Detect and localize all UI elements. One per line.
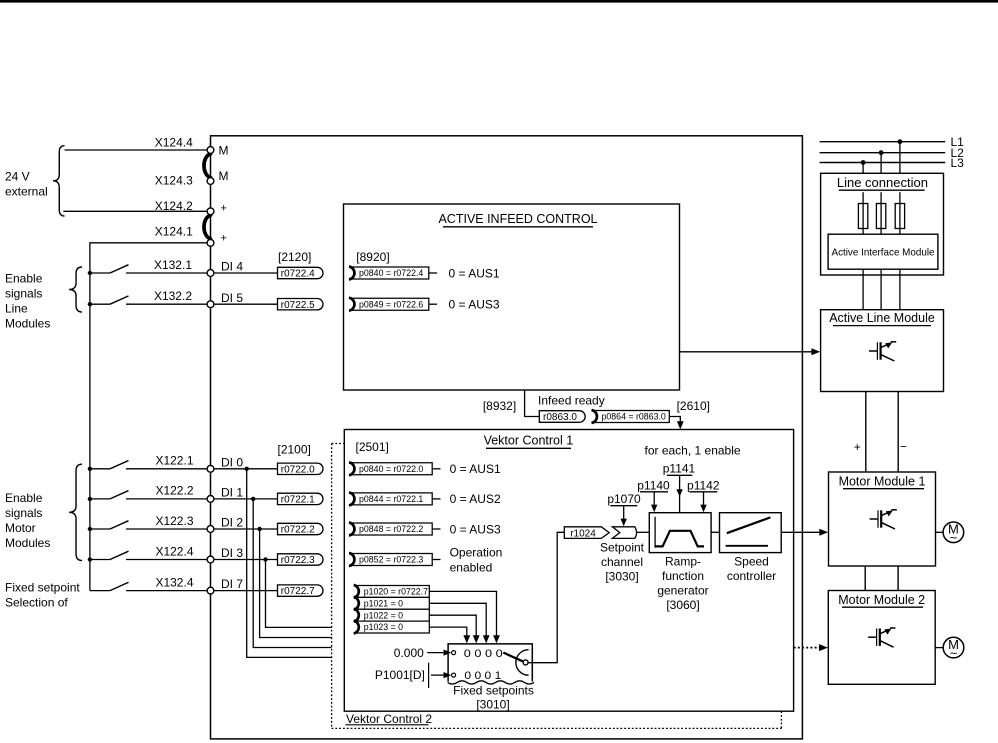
brace 24 V external <box>53 146 65 216</box>
IGBT symbol Motor Module 1 <box>870 518 878 520</box>
svg-text:r0722.1: r0722.1 <box>281 495 315 506</box>
svg-text:X124.1: X124.1 <box>155 224 193 238</box>
switch X122.2 <box>88 497 92 501</box>
svg-text:p0848 = r0722.2: p0848 = r0722.2 <box>359 524 423 534</box>
connector r0722.0 <box>278 463 323 474</box>
wire DI3 branch to Vektor Control 2 <box>266 560 332 628</box>
svg-text:DI 3: DI 3 <box>221 546 243 560</box>
svg-text:M: M <box>219 144 229 158</box>
svg-text:Fixed setpoints: Fixed setpoints <box>453 684 534 698</box>
block Vektor Control 2 dashed top stub <box>332 443 345 445</box>
svg-text:DI 4: DI 4 <box>221 260 243 274</box>
brace Enable Motor Modules <box>69 464 82 560</box>
svg-text:ACTIVE INFEED CONTROL: ACTIVE INFEED CONTROL <box>438 212 597 226</box>
svg-text:M: M <box>219 169 229 183</box>
connector r0722.3 <box>278 554 324 565</box>
wire DI2 to r0722.2 <box>214 528 278 530</box>
arrow p1070 <box>623 506 625 521</box>
block Active Line Module <box>821 310 944 392</box>
wire DI5 to r0722.5 <box>214 303 278 305</box>
svg-text:r0722.7: r0722.7 <box>281 586 315 597</box>
wire ramp to speed controller <box>711 531 719 533</box>
svg-text:24 V: 24 V <box>5 170 30 184</box>
arrow p1021 into fixed setpoints <box>483 635 490 643</box>
DC link MM1-MM2 line 2 <box>897 566 899 591</box>
terminal X122.4 <box>207 556 214 563</box>
IGBT symbol Motor Module 2 <box>868 636 876 638</box>
speed controller axis <box>726 545 768 547</box>
wire X124.2 supply <box>63 210 207 212</box>
svg-text:r0863.0: r0863.0 <box>543 412 577 423</box>
svg-text:0 = AUS3: 0 = AUS3 <box>450 522 501 536</box>
block Active Interface Module <box>828 234 938 269</box>
svg-text:Motor: Motor <box>5 521 36 535</box>
switch X122.1 <box>88 467 92 471</box>
jumper X124.2-X124.1 <box>204 215 211 239</box>
contact circle row0 <box>452 651 456 655</box>
binector input p0840 = r0722.0 <box>351 463 432 475</box>
wire DI7 to r0722.7 <box>214 590 278 592</box>
svg-text:signals: signals <box>5 506 42 520</box>
svg-text:p1141: p1141 <box>663 461 696 475</box>
binector input p1023 <box>356 621 430 633</box>
svg-text:X124.4: X124.4 <box>155 136 193 150</box>
svg-text:[2610]: [2610] <box>677 399 710 413</box>
binector input p0848 = r0722.2 <box>351 523 432 535</box>
terminal X122.3 <box>207 526 214 533</box>
switch travel arc <box>516 650 529 676</box>
top border bar <box>0 0 998 3</box>
wire p1022 to fixed setpoints <box>429 615 476 636</box>
binector input p1021 <box>356 597 430 609</box>
arrow into Vektor Control 1 <box>677 421 684 429</box>
switch X132.4 <box>90 590 110 592</box>
svg-text:Line: Line <box>5 302 28 316</box>
svg-text:signals: signals <box>5 287 42 301</box>
wire AIM to ALM phase 1 <box>862 269 864 310</box>
block Speed controller <box>720 513 782 553</box>
contact circle row1 <box>452 673 456 677</box>
binector input p0844 = r0722.1 <box>351 493 432 505</box>
fuse wire L1 <box>899 204 901 229</box>
svg-text:[8932]: [8932] <box>483 399 516 413</box>
switch X122.4 <box>88 557 92 561</box>
svg-text:+: + <box>221 233 227 245</box>
terminal X132.1 <box>207 270 214 277</box>
svg-text:[3060]: [3060] <box>666 598 699 612</box>
wire AIM to ALM phase 3 <box>899 269 901 310</box>
svg-text:Infeed ready: Infeed ready <box>538 393 605 407</box>
terminal X122.2 <box>207 496 214 503</box>
fuse L3 <box>858 204 867 229</box>
svg-text:X132.2: X132.2 <box>154 289 192 303</box>
block ACTIVE INFEED CONTROL <box>344 204 680 390</box>
svg-text:DI 1: DI 1 <box>221 486 243 500</box>
wire fixed setpoints to r1024 <box>528 532 564 662</box>
block Ramp-function generator <box>649 513 711 553</box>
wire L3 drop <box>862 163 864 174</box>
terminal X132.4 <box>207 587 214 594</box>
svg-text:p1021 = 0: p1021 = 0 <box>364 598 403 608</box>
svg-text:[2501]: [2501] <box>356 440 389 454</box>
svg-text:r0722.3: r0722.3 <box>281 555 315 566</box>
block Vektor Control 2 dashed left edge <box>331 444 333 729</box>
svg-text:p1070: p1070 <box>607 492 641 506</box>
junction DI0 <box>245 467 249 471</box>
block Motor Module 1 <box>829 472 936 566</box>
svg-text:Modules: Modules <box>5 536 50 550</box>
binector input p0849 = r0722.6 <box>351 298 429 310</box>
svg-text:function: function <box>662 569 704 583</box>
fuse L1 <box>895 204 904 229</box>
svg-text:X122.2: X122.2 <box>155 484 193 498</box>
svg-text:+: + <box>854 440 861 454</box>
motor M2 <box>936 647 944 649</box>
speed controller curve <box>727 517 771 533</box>
arrow p1142 <box>703 492 705 507</box>
svg-text:Ramp-: Ramp- <box>665 554 701 568</box>
ramp axis <box>654 517 656 548</box>
switch X132.1 <box>88 271 92 275</box>
wire p1021 to fixed setpoints <box>429 603 486 636</box>
DC bus + line <box>865 392 867 473</box>
svg-text:DI 5: DI 5 <box>221 291 243 305</box>
block Line connection <box>821 173 944 275</box>
wire DI1 branch to Vektor Control 2 <box>253 499 331 648</box>
svg-text:0 0 0 1: 0 0 0 1 <box>464 670 501 682</box>
svg-text:X124.2: X124.2 <box>155 199 193 213</box>
wire infeed control to Active Line Module <box>680 351 814 353</box>
svg-text:Vektor Control 2: Vektor Control 2 <box>346 712 432 726</box>
terminal X124.2 <box>207 208 214 215</box>
DC link MM1-MM2 line 1 <box>864 566 866 591</box>
wire DI0 branch to Vektor Control 2 <box>247 469 332 658</box>
fuse wire L2 <box>880 204 882 229</box>
svg-text:p1020 = r0722.7: p1020 = r0722.7 <box>364 587 428 597</box>
binector input p1020 <box>356 585 430 597</box>
wire DI2 branch to Vektor Control 2 <box>260 529 332 638</box>
terminal X122.1 <box>207 465 214 472</box>
svg-text:channel: channel <box>601 555 643 569</box>
arrowhead to Active Line Module <box>811 348 820 355</box>
connector input p1070 chevron <box>612 527 636 539</box>
wire infeed ready <box>525 390 540 417</box>
arrowhead to Motor Module 2 <box>819 644 828 651</box>
svg-text:[2120]: [2120] <box>278 250 311 264</box>
svg-text:Enable: Enable <box>5 491 43 505</box>
svg-text:p0844 = r0722.1: p0844 = r0722.1 <box>359 494 423 504</box>
junction DI1 <box>251 497 255 501</box>
connector r1024 <box>564 527 609 539</box>
junction L2 <box>879 150 884 155</box>
svg-text:p1022 = 0: p1022 = 0 <box>364 610 403 620</box>
svg-text:0.000: 0.000 <box>394 646 424 660</box>
ramp curve <box>655 531 704 547</box>
switch X122.3 <box>88 527 92 531</box>
arrow p1023 into fixed setpoints <box>463 635 470 643</box>
arrowhead to Motor Module 1 <box>819 529 828 536</box>
svg-text:X132.4: X132.4 <box>155 575 193 589</box>
wire p0864 to Vektor Control 1 <box>669 417 680 424</box>
svg-text:p1140: p1140 <box>637 478 670 492</box>
terminal X124.1 <box>207 239 214 246</box>
switch X132.2 <box>88 302 92 306</box>
svg-text:for each, 1 enable: for each, 1 enable <box>645 444 741 458</box>
svg-text:controller: controller <box>727 569 776 583</box>
jumper X124.4-X124.3 <box>204 154 211 178</box>
svg-text:X122.1: X122.1 <box>155 454 193 468</box>
arrow 0.000 input <box>427 652 444 654</box>
svg-text:Active Interface Module: Active Interface Module <box>832 246 935 258</box>
svg-text:Line connection: Line connection <box>837 175 928 190</box>
junction L3 <box>861 160 866 165</box>
terminal X132.2 <box>207 301 214 308</box>
svg-text:X132.1: X132.1 <box>154 258 192 272</box>
wire X124.4 supply <box>65 149 208 151</box>
binector input p0864 = r0863.0 <box>594 411 670 423</box>
terminal X124.4 <box>207 147 214 154</box>
svg-text:generator: generator <box>657 583 708 597</box>
bar P1001[D] <box>428 663 430 688</box>
connector r0722.1 <box>278 493 323 504</box>
wire AIM to ALM phase 2 <box>880 269 882 310</box>
wire L1 drop <box>899 142 901 174</box>
svg-text:r1024: r1024 <box>570 528 596 539</box>
block Vektor Control 1 <box>344 430 793 712</box>
svg-text:p0849 = r0722.6: p0849 = r0722.6 <box>359 299 423 309</box>
svg-text:L3: L3 <box>951 156 965 170</box>
block Vektor Control 2 dashed bottom edge <box>332 727 782 729</box>
svg-text:0 = AUS3: 0 = AUS3 <box>449 298 500 312</box>
IGBT symbol Active Line Module <box>869 350 877 352</box>
svg-text:enabled: enabled <box>450 560 493 574</box>
svg-text:r0722.2: r0722.2 <box>281 525 315 536</box>
svg-text:−: − <box>900 440 907 454</box>
svg-text:p0840 = r0722.4: p0840 = r0722.4 <box>359 268 423 278</box>
arrow p1022 into fixed setpoints <box>473 635 480 643</box>
svg-text:[2100]: [2100] <box>278 442 311 456</box>
svg-text:X124.3: X124.3 <box>155 174 193 188</box>
wire L2 drop <box>880 153 882 174</box>
svg-text:Selection of: Selection of <box>5 595 68 609</box>
svg-text:Operation: Operation <box>450 545 503 559</box>
wire DI3 to r0722.3 <box>214 559 278 561</box>
svg-text:Modules: Modules <box>5 317 50 331</box>
block Fixed setpoints <box>448 644 532 682</box>
svg-text:+: + <box>221 203 227 215</box>
connector r0722.5 <box>278 299 323 310</box>
wire speed controller to Motor Module 1 <box>781 531 821 533</box>
svg-text:Motor Module 1: Motor Module 1 <box>839 475 926 489</box>
svg-text:Setpoint: Setpoint <box>600 540 645 554</box>
svg-text:p0864 = r0863.0: p0864 = r0863.0 <box>602 412 666 422</box>
connector r0722.2 <box>278 523 324 534</box>
svg-text:Fixed setpoint: Fixed setpoint <box>5 580 80 594</box>
frame: drive unit outer box <box>211 136 803 739</box>
fuse wire L3 <box>862 204 864 229</box>
binector input p0852 = r0722.3 <box>351 554 432 566</box>
svg-text:[3030]: [3030] <box>605 569 638 583</box>
svg-text:~: ~ <box>950 645 958 660</box>
svg-text:DI 0: DI 0 <box>221 455 243 469</box>
block Motor Module 2 <box>828 591 935 685</box>
fuse L2 <box>876 204 885 229</box>
switch pivot circle <box>523 660 528 665</box>
wire p1023 to fixed setpoints <box>429 627 467 636</box>
svg-text:Active Line Module: Active Line Module <box>829 311 935 325</box>
svg-text:p0852 = r0722.3: p0852 = r0722.3 <box>359 555 423 565</box>
power line L3 <box>820 162 946 164</box>
wire L1 drop inner <box>899 192 901 234</box>
motor M1 <box>935 531 943 533</box>
svg-text:Motor Module 2: Motor Module 2 <box>838 593 925 607</box>
arrow p1140 <box>653 492 655 507</box>
svg-text:[3010]: [3010] <box>476 697 509 711</box>
DC bus - line <box>897 392 899 473</box>
binector input p0840 = r0722.4 <box>351 267 429 279</box>
block Vektor Control 2 dashed right edge <box>780 711 782 728</box>
svg-text:P1001[D]: P1001[D] <box>375 668 425 682</box>
wire DI1 to r0722.1 <box>214 498 278 500</box>
svg-text:Vektor Control 1: Vektor Control 1 <box>484 434 574 448</box>
wire X124.1 to enable bus <box>90 243 207 591</box>
svg-text:DI 2: DI 2 <box>221 516 243 530</box>
svg-text:Speed: Speed <box>734 554 769 568</box>
switch lever <box>503 653 523 662</box>
arrow p1141 <box>679 475 681 512</box>
wire DI4 to r0722.4 <box>214 272 278 274</box>
wire L2 drop inner <box>880 192 882 234</box>
svg-text:p1142: p1142 <box>687 478 720 492</box>
svg-text:~: ~ <box>950 530 958 545</box>
wire L3 drop inner <box>862 192 864 234</box>
terminal X124.3 <box>207 178 214 185</box>
svg-text:[8920]: [8920] <box>356 250 389 264</box>
svg-text:r0722.0: r0722.0 <box>281 464 315 475</box>
svg-text:X122.3: X122.3 <box>155 514 193 528</box>
power line L2 <box>820 152 946 154</box>
wire setpoint channel to ramp <box>637 531 649 533</box>
brace Enable Line Modules <box>69 267 82 312</box>
wire DI0 to r0722.0 <box>214 468 278 470</box>
svg-text:Enable: Enable <box>5 272 43 286</box>
svg-text:p1023 = 0: p1023 = 0 <box>364 622 403 632</box>
svg-text:0 = AUS1: 0 = AUS1 <box>450 462 501 476</box>
svg-text:p0840 = r0722.0: p0840 = r0722.0 <box>359 464 423 474</box>
binector input p1022 <box>356 609 430 621</box>
junction L1 <box>898 139 903 144</box>
wire p1020 to fixed setpoints <box>429 591 496 636</box>
arrow p1020 into fixed setpoints <box>493 635 500 643</box>
power line L1 <box>820 141 946 143</box>
connector r0722.4 <box>278 267 324 278</box>
svg-text:r0722.4: r0722.4 <box>281 269 315 280</box>
svg-text:external: external <box>5 185 48 199</box>
svg-text:0 = AUS2: 0 = AUS2 <box>450 492 501 506</box>
connector r0863.0 <box>539 411 585 423</box>
svg-text:0 = AUS1: 0 = AUS1 <box>449 266 500 280</box>
svg-text:X122.4: X122.4 <box>155 544 193 558</box>
wire dotted to Motor Module 2 <box>794 647 821 649</box>
junction DI2 <box>257 527 261 531</box>
arrow P1001 input <box>431 674 445 676</box>
svg-text:0 0 0 0: 0 0 0 0 <box>464 648 503 660</box>
svg-text:r0722.5: r0722.5 <box>281 300 315 311</box>
connector r0722.7 <box>278 585 323 596</box>
svg-text:DI 7: DI 7 <box>221 577 243 591</box>
junction DI3 <box>263 557 267 561</box>
